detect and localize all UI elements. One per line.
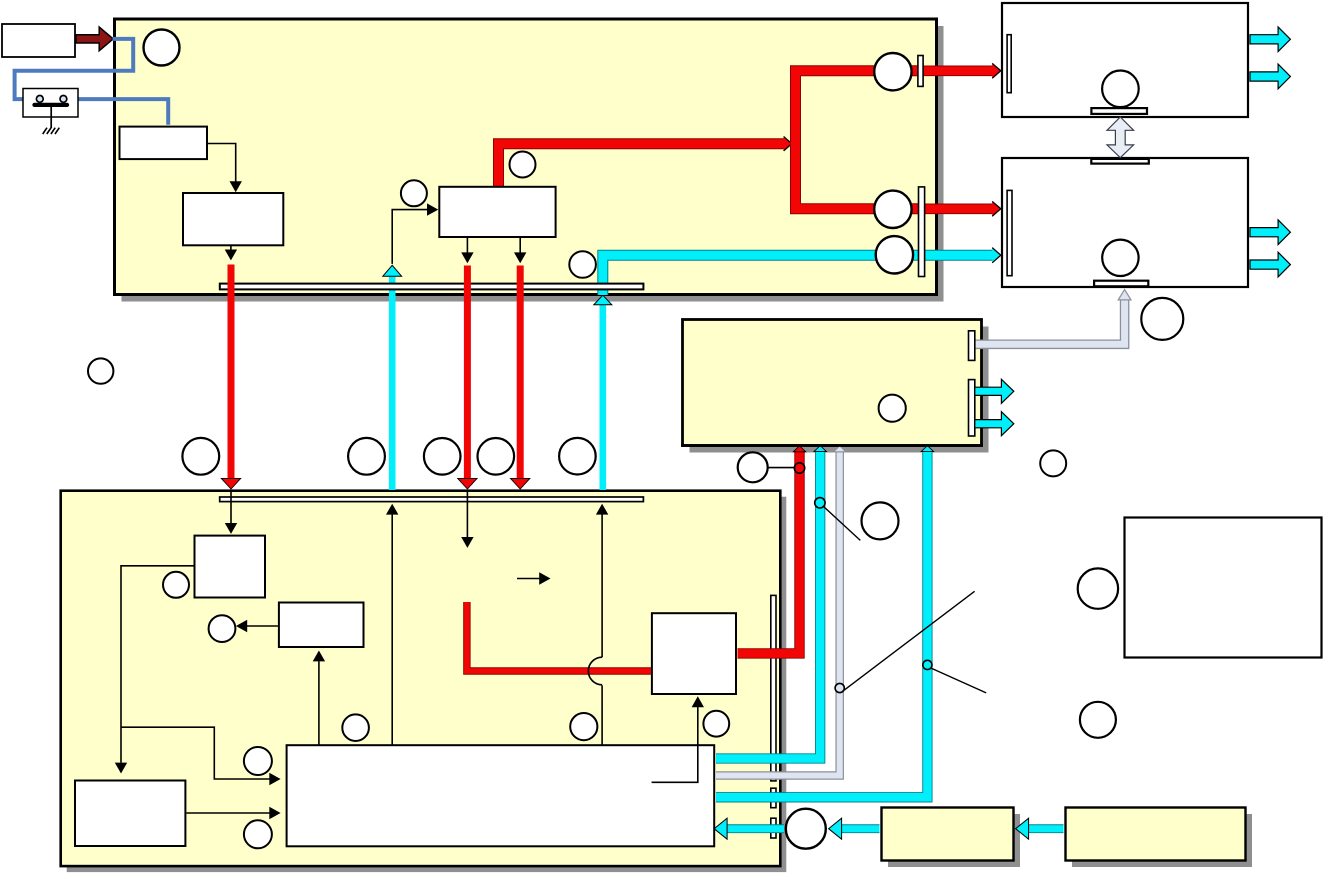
- arrow: boiler to steam line: [225, 245, 237, 260]
- circle: deaerator line tag: [569, 251, 596, 278]
- wire: control block internal L: [652, 746, 698, 782]
- white box: superheater: [439, 187, 555, 237]
- arrow: aux feed into superheater: [392, 203, 438, 264]
- cyan output arrow gen1 a: [1250, 27, 1290, 52]
- circle: right floating mid: [1078, 568, 1118, 608]
- circle: cyan line valve: [876, 236, 913, 273]
- wire: cyan extraction line 1: [716, 446, 826, 759]
- main plant container: [115, 19, 937, 295]
- arrow: aux C to control block: [186, 807, 280, 819]
- circle: turbine valve 2: [874, 191, 911, 228]
- shadow: feedwater tank: [690, 327, 989, 453]
- wire: red steam feed 1: [221, 265, 240, 490]
- wire: cyan aux line with up-arrow: [594, 295, 612, 490]
- arrow: tap to control block upper: [121, 727, 281, 785]
- wire: node tap link: [768, 467, 796, 469]
- maroon grid arrow: [76, 27, 113, 51]
- wire: red main steam header: [499, 137, 792, 192]
- wire: red arrow into generator 2: [923, 201, 1001, 216]
- cyan output arrow tank a: [975, 379, 1014, 403]
- penetration bar: turbine inlet 1: [918, 56, 923, 87]
- cyan output arrow gen2 a: [1250, 220, 1290, 245]
- breaker contact left: [36, 96, 43, 103]
- circle: cyan tap tag: [862, 502, 899, 539]
- arrow: small flow arrow: [517, 572, 551, 584]
- circle: bus row 3: [424, 438, 461, 475]
- cyan output arrow tank b: [975, 412, 1014, 436]
- callout line: cyan tap 2: [931, 668, 986, 693]
- circle: pump tag: [570, 713, 597, 740]
- arrow: transformer to boiler: [208, 144, 242, 193]
- circle: bus row 4: [478, 438, 515, 475]
- circle: control tag 2: [244, 820, 272, 848]
- arrow: control block to aux B: [313, 651, 325, 745]
- bar: generator 2 coupling: [1007, 190, 1012, 275]
- wire: condensate arrow into hall: [714, 818, 784, 839]
- white box: grid infeed: [2, 24, 75, 57]
- condensate box 2: [1066, 808, 1246, 861]
- shadow: main plant container: [122, 26, 944, 302]
- wire: red arrow into generator 1: [920, 63, 1001, 78]
- white box: boiler: [183, 193, 283, 245]
- white box: aux A: [195, 536, 266, 598]
- breaker stem: [50, 107, 52, 128]
- circle: right floating low: [1080, 702, 1116, 738]
- wire: red turbine branch: [796, 71, 924, 209]
- cyan output arrow gen2 b: [1250, 252, 1290, 277]
- wire: blue grid wire 1: [15, 39, 134, 99]
- penetration bar: hall long: [771, 595, 776, 781]
- white box: aux B: [279, 603, 364, 648]
- condensate box 1: [882, 808, 1014, 861]
- generator unit box 2: [1002, 158, 1248, 287]
- circle: right floating small: [1040, 450, 1066, 476]
- bar: generator 2 base: [1094, 281, 1148, 287]
- white box: control block: [287, 745, 715, 846]
- ground: [43, 128, 60, 134]
- penetration bar: turbine inlet 2: [919, 187, 925, 277]
- cyan output arrow gen1 b: [1250, 64, 1290, 89]
- arrow: superheater down left: [461, 238, 473, 263]
- generator unit box 1: [1002, 3, 1248, 117]
- bar: tank nozzle 1: [969, 331, 975, 361]
- wire: blue grid wire 2: [66, 99, 168, 125]
- arrow: superheater down right: [514, 238, 526, 263]
- arrow: control block to bus2 left: [386, 504, 398, 745]
- white box: feed pump: [652, 613, 736, 694]
- arrow: aux B to circle: [236, 620, 278, 632]
- feedwater tank bottom border: [681, 444, 983, 447]
- wire: red reheat line in hall: [467, 602, 651, 671]
- circle: red tap tag: [738, 452, 768, 482]
- wire: condensate arrow from box2 to box1: [1016, 818, 1064, 839]
- shadow: turbine hall container: [67, 497, 787, 872]
- circle: tank tag: [879, 395, 906, 422]
- bus bar 2: [220, 497, 644, 502]
- node: cyan tap 2: [923, 660, 932, 669]
- circle: bus row 2: [348, 438, 385, 475]
- wire: red steam feed 2: [458, 266, 477, 490]
- circle: pump outlet tag: [703, 711, 729, 737]
- arrow: control block to bus2 right with hop: [588, 504, 608, 745]
- circle: plant id: [144, 30, 180, 66]
- node: red tap: [794, 463, 804, 473]
- wire: condensate arrow from box1 to pump circle: [829, 818, 880, 839]
- penetration bar: hall small lower: [771, 818, 776, 838]
- callout line: gray tap: [843, 591, 975, 691]
- callout line: cyan tap 1: [823, 506, 860, 541]
- bus bar 1: [220, 284, 644, 290]
- circle: bus row 1: [182, 438, 219, 475]
- circle: control tag 1: [244, 747, 272, 775]
- gray coupling double arrow: [1107, 117, 1134, 158]
- wire: cyan deaerator steam run: [603, 248, 1001, 295]
- wire: gray gland steam line to generator 2: [973, 290, 1131, 345]
- circle: generator 1: [1102, 71, 1139, 108]
- white box: station transformer: [120, 127, 208, 160]
- arrow: aux A to aux C: [115, 566, 194, 774]
- circle: gland tag: [1141, 298, 1183, 340]
- circle: aux B tag: [209, 615, 236, 642]
- arrow: control block to feed pump: [692, 696, 704, 744]
- arrow: bus2 stub down: [461, 490, 473, 548]
- circle: aux B arrow tag: [342, 714, 369, 741]
- wire: cyan extraction line 2: [716, 446, 934, 798]
- white box: breaker SW1: [23, 89, 78, 118]
- wire: red steam feed 3: [511, 266, 530, 490]
- bar: generator 2 top: [1091, 159, 1149, 164]
- breaker blade: [35, 103, 68, 107]
- turbine hall container: [61, 491, 781, 866]
- wire: gray drain line: [716, 446, 846, 776]
- circle: bus row 5: [559, 438, 596, 475]
- circle: aux A tag: [163, 572, 189, 598]
- arrow: bus2 to aux A: [225, 490, 237, 534]
- legend box: [1125, 518, 1322, 658]
- bar: tank nozzle 2: [969, 380, 975, 436]
- breaker contact right: [60, 96, 67, 103]
- shadow: condensate box 1: [888, 814, 1020, 867]
- bar: generator 1 base: [1091, 108, 1147, 114]
- circle: generator 2: [1102, 240, 1138, 276]
- feedwater tank box: [683, 320, 982, 446]
- node: gray tap: [835, 683, 844, 692]
- circle: superheater tag left: [401, 180, 427, 206]
- shadow: condensate box 2: [1072, 814, 1252, 867]
- penetration bar: hall small upper: [771, 788, 776, 808]
- bar: generator 1 coupling: [1007, 35, 1011, 93]
- circle: superheater tag upper: [510, 152, 536, 178]
- wire: red feedwater line to tank: [738, 446, 806, 654]
- circle: condensate pump: [786, 809, 826, 849]
- circle: turbine valve 1: [874, 53, 911, 90]
- circle: left floating tag: [88, 358, 113, 383]
- node: cyan tap 1: [815, 498, 825, 508]
- white box: aux C: [75, 781, 185, 847]
- wire: cyan bus tie up-arrow: [383, 265, 402, 490]
